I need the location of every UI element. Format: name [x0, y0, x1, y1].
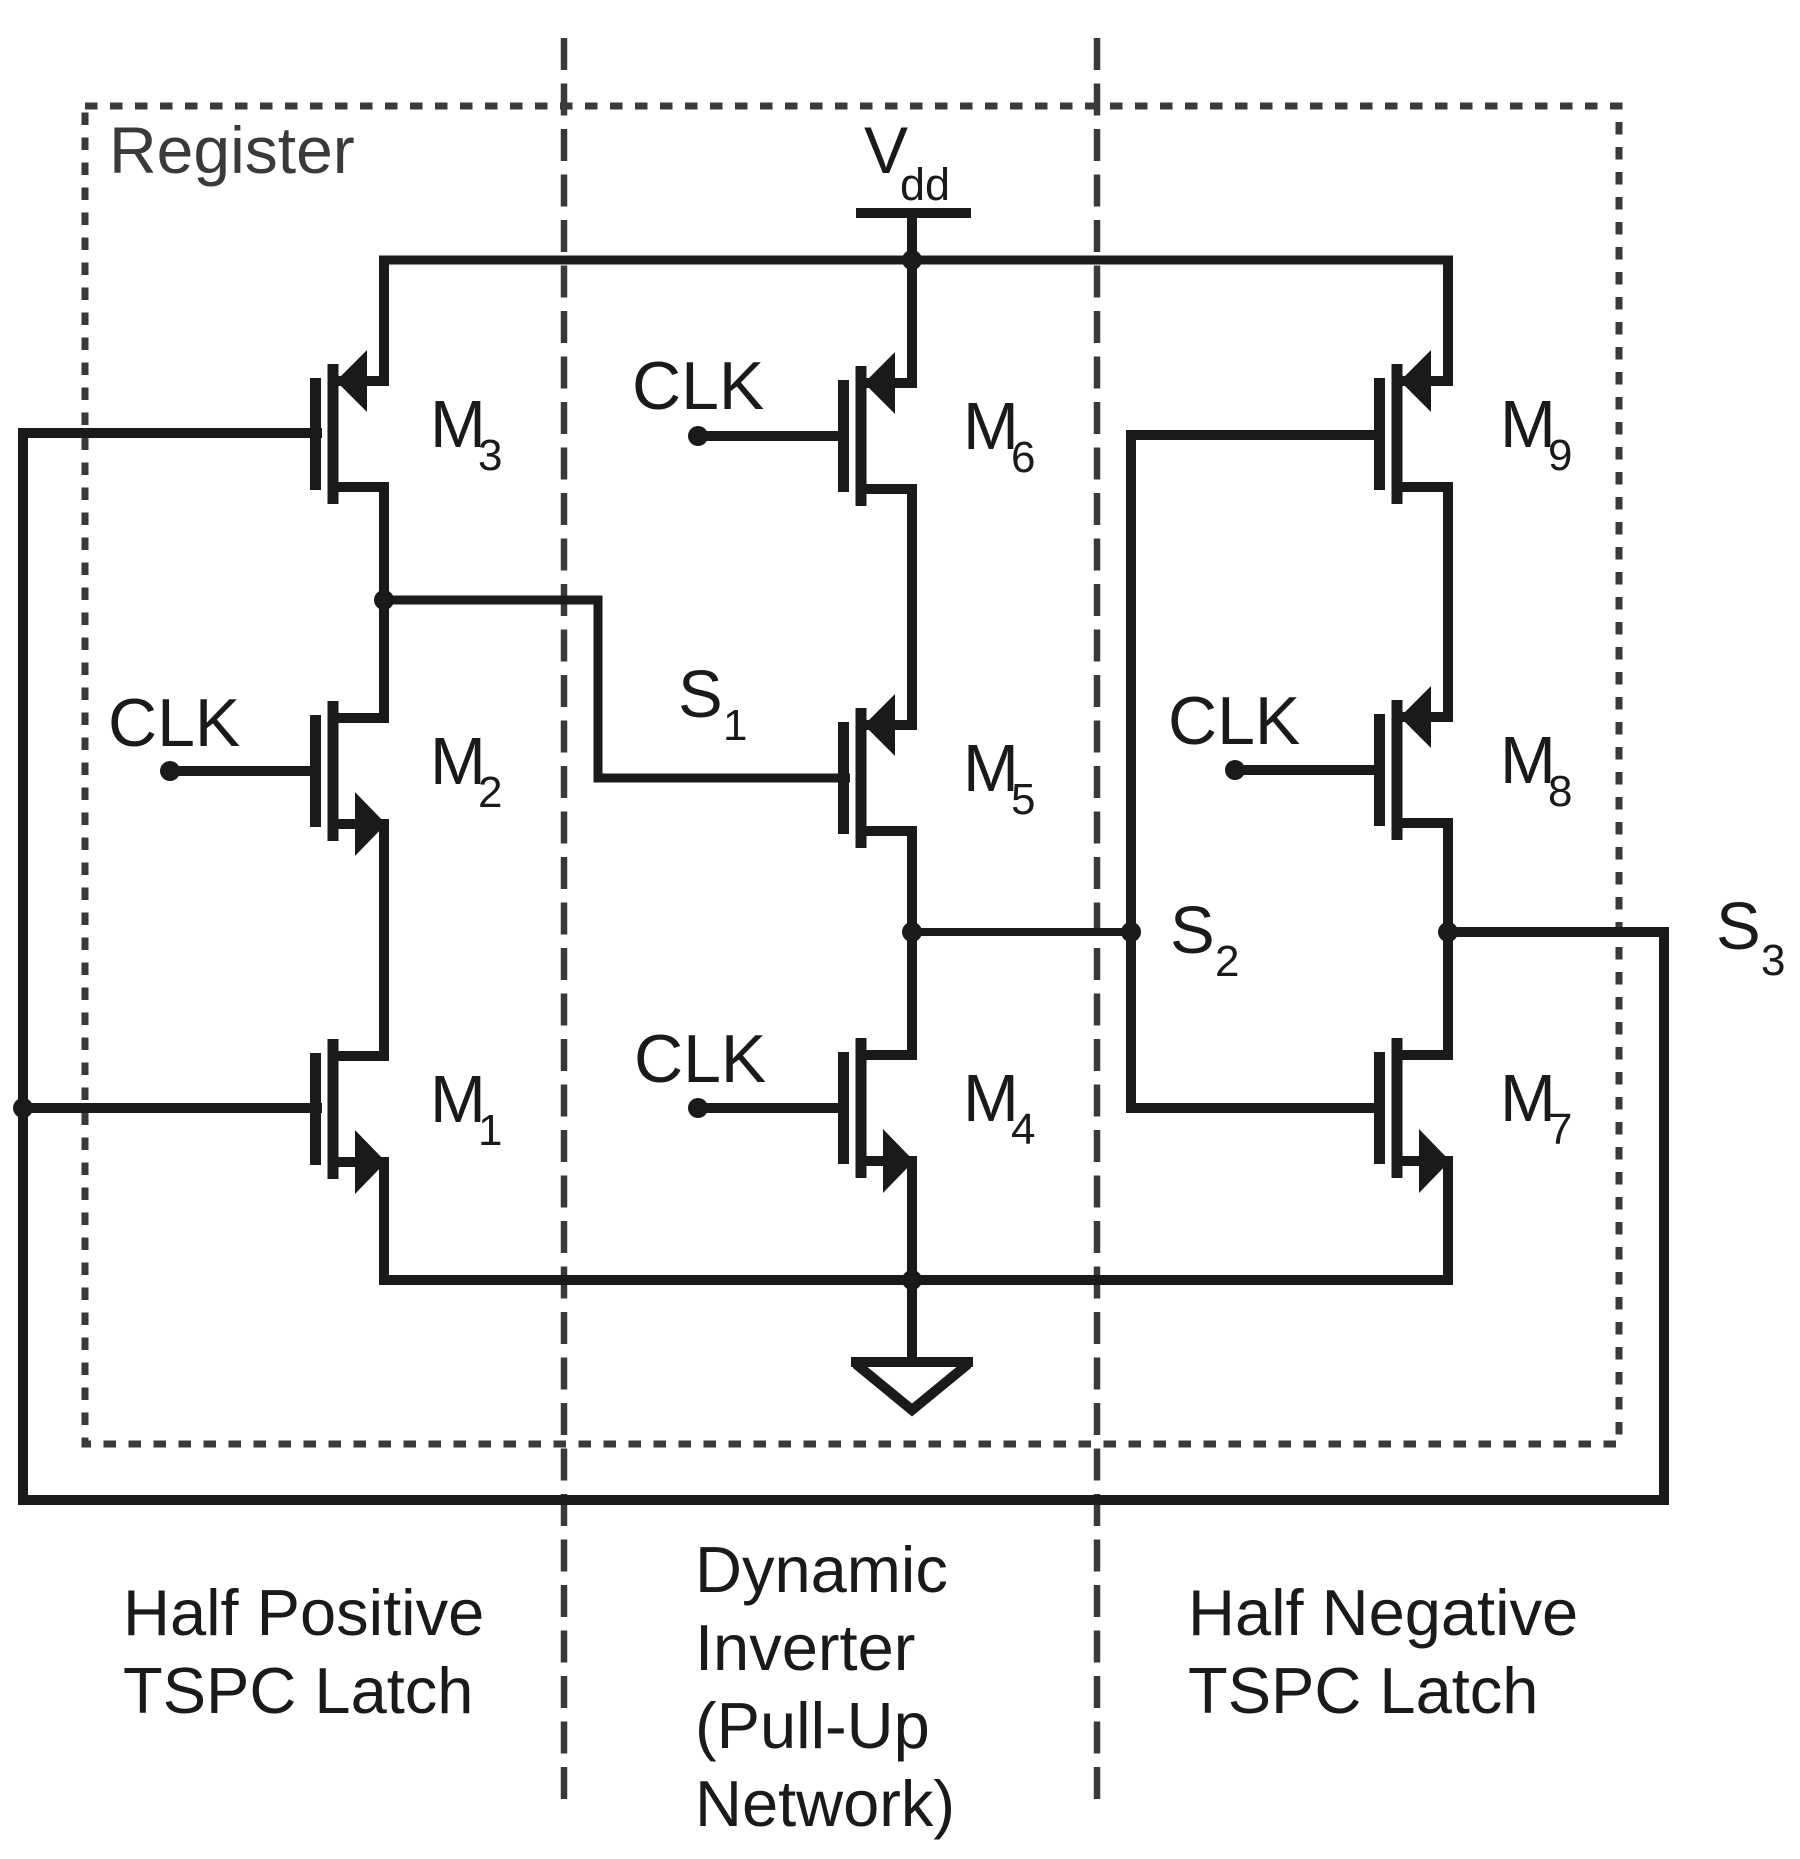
- wire S3 feedback route: [23, 433, 1664, 1500]
- node ground rail junction: [902, 1270, 922, 1290]
- CLK input of M6: [688, 426, 708, 446]
- svg-text:Dynamic: Dynamic: [695, 1533, 948, 1606]
- wire M8 drain to node S3: [1443, 823, 1453, 932]
- transistor M1 gate bar: [310, 1053, 321, 1165]
- transistor M3 bottom lead: [333, 482, 389, 492]
- transistor M3 top lead: [333, 376, 389, 386]
- wire S1 route to M5 gate: [384, 600, 850, 778]
- node S2 left junction: [902, 922, 922, 942]
- transistor M9 top lead: [1397, 376, 1453, 386]
- transistor M8 channel bar: [1392, 700, 1403, 840]
- transistor M1 top lead: [333, 1051, 389, 1061]
- svg-text:Half Negative: Half Negative: [1188, 1576, 1578, 1649]
- svg-text:(Pull-Up: (Pull-Up: [695, 1689, 930, 1762]
- wire ground bottom rail: [379, 1275, 1453, 1285]
- svg-text:TSPC Latch: TSPC Latch: [123, 1654, 473, 1727]
- transistor M5 bottom lead: [861, 826, 917, 836]
- transistor M8 gate bar: [1374, 714, 1385, 826]
- svg-text:CLK: CLK: [1168, 683, 1300, 759]
- svg-text:7: 7: [1548, 1105, 1572, 1154]
- wire M9 drain to M8: [1443, 487, 1453, 717]
- wire M3 source to rail: [379, 260, 389, 383]
- transistor M4 channel bar: [856, 1038, 867, 1178]
- transistor M5 channel bar: [856, 708, 867, 848]
- wire node S2 horizontal: [912, 928, 1131, 936]
- transistor M9 bottom lead: [1397, 482, 1453, 492]
- transistor M3 gate bar: [310, 378, 321, 490]
- wire M1 to ground rail: [379, 1162, 389, 1280]
- svg-text:6: 6: [1011, 433, 1035, 482]
- CLK input of M2: [160, 761, 180, 781]
- svg-text:TSPC Latch: TSPC Latch: [1188, 1654, 1538, 1727]
- Vdd supply symbol: [856, 208, 971, 218]
- svg-text:1: 1: [723, 701, 747, 750]
- transistor M8 top lead: [1397, 712, 1453, 722]
- svg-text:CLK: CLK: [632, 348, 764, 424]
- transistor M2 channel bar: [328, 701, 339, 841]
- transistor M8 source arrow (points into channel): [1400, 686, 1431, 748]
- svg-text:Half Positive: Half Positive: [123, 1576, 484, 1649]
- transistor M5 gate bar: [838, 722, 849, 834]
- transistor M5 source arrow (points into channel): [864, 694, 895, 756]
- transistor M2 bottom lead: [333, 819, 389, 829]
- wire M2 to M1: [379, 824, 389, 1056]
- svg-text:9: 9: [1548, 431, 1572, 480]
- transistor M7 source arrow (points away from channel): [1419, 1129, 1450, 1193]
- transistor M6 bottom lead: [861, 484, 917, 494]
- ground symbol: [907, 1280, 917, 1362]
- node M1 gate junction: [13, 1098, 33, 1118]
- wire M7 source to ground rail: [1443, 1161, 1453, 1280]
- node S2 bus junction: [1121, 922, 1141, 942]
- transistor M6 source arrow (points into channel): [864, 352, 895, 414]
- node Vdd rail junction: [902, 250, 922, 270]
- svg-text:S: S: [1170, 893, 1215, 968]
- transistor M9 channel bar: [1392, 364, 1403, 504]
- wire M6 source to rail: [907, 260, 917, 383]
- wire S2 gate bus: M9 gate to M7 gate: [1131, 435, 1380, 1108]
- transistor M4 top lead: [861, 1050, 917, 1060]
- svg-text:4: 4: [1011, 1105, 1035, 1154]
- wire M5 drain to node S2: [907, 831, 917, 932]
- transistor M4 source arrow (points away from channel): [883, 1129, 914, 1193]
- wire M4 drain up to node S2: [907, 932, 917, 1055]
- transistor M7 gate bar: [1374, 1052, 1385, 1164]
- register boundary dashed box: [85, 106, 1619, 1444]
- transistor M4 bottom lead: [861, 1156, 917, 1166]
- transistor M6 gate bar: [838, 380, 849, 492]
- transistor M3 channel bar: [328, 364, 339, 504]
- svg-text:2: 2: [1215, 937, 1239, 986]
- svg-text:CLK: CLK: [634, 1021, 766, 1097]
- wire M6 drain to M5: [907, 489, 917, 725]
- transistor M2 top lead: [333, 713, 389, 723]
- transistor M7 top lead: [1397, 1050, 1453, 1060]
- svg-text:3: 3: [478, 431, 502, 480]
- transistor M7 channel bar: [1392, 1038, 1403, 1178]
- transistor M3 source arrow (points into channel): [336, 350, 367, 412]
- section divider dashed line (right): [1094, 38, 1101, 1810]
- transistor M1 bottom lead: [333, 1157, 389, 1167]
- svg-text:S: S: [678, 657, 723, 732]
- svg-text:dd: dd: [900, 159, 950, 210]
- wire M7 drain up to node S3: [1443, 932, 1453, 1055]
- transistor M9 source arrow (points into channel): [1400, 350, 1431, 412]
- svg-text:S: S: [1716, 889, 1761, 964]
- svg-text:Inverter: Inverter: [695, 1611, 915, 1684]
- wire Vdd top rail: [379, 256, 1453, 265]
- transistor M4 gate bar: [838, 1052, 849, 1164]
- svg-text:1: 1: [478, 1106, 502, 1155]
- svg-text:Register: Register: [109, 113, 355, 187]
- section divider dashed line (left): [561, 38, 568, 1810]
- wire M4 source to ground rail: [907, 1161, 917, 1280]
- svg-text:2: 2: [478, 768, 502, 817]
- svg-text:CLK: CLK: [108, 685, 240, 761]
- transistor M1 source arrow (points away from channel): [355, 1130, 386, 1194]
- svg-text:Network): Network): [695, 1767, 955, 1840]
- node S3 junction: [1438, 922, 1458, 942]
- svg-text:8: 8: [1548, 767, 1572, 816]
- transistor M2 source arrow (points away from channel): [355, 792, 386, 856]
- node S1 tap: [374, 590, 394, 610]
- transistor M6 top lead: [861, 378, 917, 388]
- wire M9 source to rail: [1443, 260, 1453, 381]
- transistor M2 gate bar: [310, 715, 321, 827]
- transistor M1 channel bar: [328, 1039, 339, 1179]
- transistor M7 bottom lead: [1397, 1156, 1453, 1166]
- svg-text:3: 3: [1761, 936, 1785, 985]
- svg-text:5: 5: [1011, 775, 1035, 824]
- transistor M8 bottom lead: [1397, 818, 1453, 828]
- wire M3 drain to M2: [379, 487, 389, 718]
- CLK input of M4: [688, 1098, 708, 1118]
- transistor M6 channel bar: [856, 366, 867, 506]
- CLK input of M8: [1225, 760, 1245, 780]
- transistor M5 top lead: [861, 720, 917, 730]
- wire M1 gate: [23, 1103, 322, 1113]
- transistor M9 gate bar: [1374, 378, 1385, 490]
